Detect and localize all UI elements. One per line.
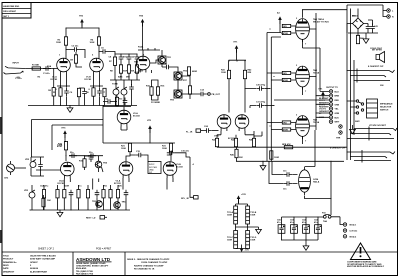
svg-text:TAD-A: TAD-A <box>313 181 320 184</box>
capacitor C15 <box>136 153 144 158</box>
resistor R22 <box>42 198 45 206</box>
svg-text:7: 7 <box>305 44 307 46</box>
wire ground ext <box>103 105 137 107</box>
svg-text:100K: 100K <box>162 148 167 150</box>
ground TX <box>256 227 262 234</box>
svg-text:ECC83: ECC83 <box>85 79 93 81</box>
HT1 arrow right <box>319 89 325 100</box>
power valve V10 <box>296 116 320 139</box>
valve V2-A ECC83 <box>117 110 140 126</box>
wire <box>347 5 387 17</box>
svg-text:VR2: VR2 <box>25 159 30 161</box>
resistor R6B <box>103 88 106 106</box>
svg-text:FX SEND: FX SEND <box>151 102 161 104</box>
valve V1-A ECC83 <box>51 58 71 81</box>
wire V2-A legs <box>121 127 127 131</box>
wire coupling <box>66 50 85 59</box>
wire <box>229 79 256 113</box>
connector pin 6 <box>329 111 339 115</box>
resistor R19 <box>83 156 86 170</box>
resistor R6A <box>77 88 80 106</box>
svg-text:COAX ONLY: COAX ONLY <box>370 47 383 50</box>
wire selector feeds <box>347 101 356 113</box>
svg-text:TX1-A: TX1-A <box>227 211 234 214</box>
jack J8 8ohm <box>357 66 395 87</box>
ground caps <box>303 240 309 250</box>
svg-text:BLU/WHT: BLU/WHT <box>319 98 329 100</box>
svg-text:100K: 100K <box>221 72 226 74</box>
svg-text:470p: 470p <box>123 55 128 58</box>
svg-text:10K: 10K <box>47 200 51 202</box>
svg-text:MUST BE REPLACED ACCORDINGLY: MUST BE REPLACED ACCORDINGLY <box>347 265 385 268</box>
resistor R48 nfb <box>284 146 292 149</box>
input jack J1 <box>4 63 26 80</box>
resistor R14 <box>150 87 153 95</box>
resistor R10 <box>135 65 138 73</box>
svg-text:+15V: +15V <box>241 194 247 196</box>
svg-text:YEL: YEL <box>335 109 340 111</box>
svg-text:PGB = APR07: PGB = APR07 <box>96 248 112 251</box>
transformer TX1-D <box>246 231 257 249</box>
wire top rail <box>138 48 160 50</box>
pot VR5 middle <box>121 80 127 106</box>
svg-text:TONE: TONE <box>112 84 118 86</box>
svg-text:CH2: CH2 <box>4 178 9 180</box>
resistor R2 <box>48 69 55 106</box>
svg-text:HT1: HT1 <box>234 42 239 44</box>
switch SW1 <box>148 162 161 175</box>
svg-text:10n: 10n <box>283 189 287 191</box>
svg-text:8 OHM EXT O/P: 8 OHM EXT O/P <box>368 66 384 68</box>
HT2 rail arrow <box>79 16 84 27</box>
svg-text:3: 3 <box>296 115 298 117</box>
wire mid row <box>69 155 103 157</box>
svg-text:R14A: R14A <box>138 46 144 49</box>
wire cathode bus <box>217 147 347 150</box>
svg-text:RED/WHT: RED/WHT <box>319 107 329 109</box>
+15V arrow <box>237 194 247 203</box>
wire top <box>115 53 137 55</box>
capacitor C42 <box>283 171 292 177</box>
wire <box>99 52 115 55</box>
svg-text:1K5: 1K5 <box>103 186 108 188</box>
svg-text:1M: 1M <box>70 60 73 62</box>
svg-text:R5: R5 <box>53 92 57 94</box>
svg-text:R1A: R1A <box>47 65 52 68</box>
resistor R16 <box>187 67 197 75</box>
capacitor C14 <box>198 92 206 97</box>
wire cap bottoms <box>282 233 319 240</box>
svg-text:100R: 100R <box>250 240 255 242</box>
svg-text:TEL (0)845 17326: TEL (0)845 17326 <box>76 270 94 273</box>
resistor R60 <box>356 35 359 43</box>
HT arrow A3 <box>277 12 282 33</box>
wire <box>90 75 103 106</box>
svg-text:1M: 1M <box>48 90 51 92</box>
resistor R28 <box>102 190 105 198</box>
valve V7-A ECC83 <box>214 115 231 138</box>
svg-text:25K: 25K <box>131 71 135 73</box>
node <box>244 88 245 89</box>
capacitor C12B <box>123 98 128 106</box>
transistor Q2 <box>174 71 188 81</box>
svg-text:1: 1 <box>59 55 61 57</box>
svg-text:PRODUCT: PRODUCT <box>3 259 14 261</box>
svg-text:250K: 250K <box>123 71 128 73</box>
connector pin 2 <box>329 94 339 98</box>
bridge rectifier BR1 <box>352 16 364 30</box>
svg-text:TAD: TAD <box>313 69 318 72</box>
resistor R21 <box>121 143 132 151</box>
svg-text:R43: R43 <box>212 139 217 142</box>
svg-text:RED: RED <box>335 100 340 102</box>
wire PI cathodes <box>217 131 254 138</box>
HT4 arrow <box>139 15 144 51</box>
capacitor C12 <box>105 99 113 104</box>
transistor TR6 <box>114 202 121 209</box>
svg-text:4 OHM EXT O/P: 4 OHM EXT O/P <box>330 147 346 150</box>
svg-text:470R: 470R <box>283 32 288 35</box>
svg-text:L: L <box>392 11 394 13</box>
svg-text:GRN/WHT: GRN/WHT <box>319 111 330 113</box>
capacitor C40 <box>366 24 371 32</box>
nfb wire <box>254 132 262 139</box>
svg-text:SW2: SW2 <box>355 121 360 123</box>
grid resistor R52 <box>267 121 297 125</box>
svg-text:REV7_LD: REV7_LD <box>86 218 96 220</box>
svg-text:GZ34: GZ34 <box>313 178 319 181</box>
svg-text:BRN: BRN <box>335 96 340 98</box>
svg-text:GRN: GRN <box>335 113 340 115</box>
svg-text:VR3: VR3 <box>24 190 29 192</box>
ground <box>67 106 73 113</box>
wire buffer 2 <box>152 76 199 100</box>
svg-text:TRE: TRE <box>134 62 139 64</box>
sheet line <box>2 251 398 253</box>
resistor R3 <box>64 37 67 45</box>
svg-text:C1 47n: C1 47n <box>43 72 51 75</box>
wire q1 base <box>150 60 159 63</box>
wire <box>236 199 248 206</box>
svg-text:TR1: TR1 <box>167 57 172 59</box>
wire plate connections <box>303 10 348 144</box>
svg-text:BRN/WHT: BRN/WHT <box>319 102 330 104</box>
left edge mark 2 <box>0 230 2 243</box>
svg-text:ALAN BERTRAM: ALAN BERTRAM <box>30 270 47 273</box>
wire legs <box>64 178 173 190</box>
wire grid buses <box>267 33 281 162</box>
capacitor C30 <box>256 84 266 91</box>
svg-text:C13: C13 <box>163 64 168 66</box>
svg-text:ASHDOWN LTD: ASHDOWN LTD <box>76 257 111 262</box>
connector pin 7 <box>329 116 339 120</box>
svg-text:SPL_JK: SPL_JK <box>181 198 189 200</box>
wire <box>265 105 274 107</box>
resistor R42 <box>243 69 252 79</box>
capacitor C13 <box>164 65 172 70</box>
svg-text:100K: 100K <box>121 148 126 150</box>
svg-text:REVD: REVD <box>3 265 9 267</box>
svg-text:VALVE RHYTHM & BLUES: VALVE RHYTHM & BLUES <box>30 254 56 257</box>
svg-text:R13: R13 <box>119 99 124 101</box>
svg-text:SW1/2: SW1/2 <box>149 164 154 166</box>
capacitor C7 <box>97 88 102 96</box>
svg-text:R17: R17 <box>183 80 188 82</box>
valve V3-A ECC83 <box>114 162 133 185</box>
resistor R18 <box>57 142 68 162</box>
node dots pass <box>29 9 354 240</box>
svg-text:SWITCH: SWITCH <box>380 110 389 112</box>
capacitor C9 <box>127 54 132 62</box>
svg-text:DRAWN BY: DRAWN BY <box>3 270 15 273</box>
resistor R46 tail <box>235 149 238 157</box>
svg-text:R1 68K: R1 68K <box>32 64 40 66</box>
node FX_OUT <box>208 93 221 96</box>
svg-text:R7: R7 <box>109 61 113 63</box>
capacitor C52 <box>302 220 309 234</box>
node dots <box>293 216 318 217</box>
svg-text:WE 407 770 R21: WE 407 770 R21 <box>313 21 330 24</box>
svg-text:C14: C14 <box>200 89 205 92</box>
connector pin 3 <box>329 98 339 102</box>
fuse F03 <box>322 212 332 222</box>
wire <box>57 75 70 106</box>
svg-text:HTR: HTR <box>336 138 341 140</box>
transformer TX1-C <box>227 231 238 249</box>
svg-text:R45: R45 <box>249 139 254 142</box>
wire OT leads <box>303 48 330 113</box>
resistor R5 <box>59 88 62 96</box>
svg-text:BLU: BLU <box>335 91 340 93</box>
resistor R1 <box>32 67 40 70</box>
capacitor C8 <box>119 54 124 62</box>
svg-text:2: 2 <box>30 265 32 267</box>
capacitor C3 <box>72 47 80 52</box>
transistor TR5 <box>96 201 103 208</box>
wire <box>347 9 368 34</box>
valve V2-B ECC83 <box>134 56 150 74</box>
svg-text:D1-D4: D1-D4 <box>352 15 359 18</box>
svg-text:470R: 470R <box>283 79 288 82</box>
value labels pass <box>15 55 143 101</box>
capacitor C18 <box>69 153 77 158</box>
resistor R7 <box>113 57 116 65</box>
svg-text:DRG GP0807: DRG GP0807 <box>3 11 17 13</box>
svg-text:100K: 100K <box>90 42 95 44</box>
resistor R24 <box>56 190 59 198</box>
title box top-left <box>2 3 31 19</box>
capacitor C20 <box>69 190 74 198</box>
reverb connector REV7_LD <box>86 216 107 220</box>
resistor R6 <box>92 88 95 96</box>
wire buffer 3 <box>206 93 208 95</box>
wire input <box>26 68 58 70</box>
ground <box>350 125 356 134</box>
svg-text:C24: C24 <box>204 125 209 128</box>
svg-text:HT3: HT3 <box>147 120 152 122</box>
svg-text:3: 3 <box>296 65 298 67</box>
capacitor C23 <box>89 154 94 162</box>
svg-text:470R: 470R <box>283 129 288 132</box>
capacitor C53 <box>314 220 321 234</box>
resistor R26 <box>77 190 80 198</box>
valve V11 GZ34 <box>299 167 320 195</box>
capacitor C1 <box>43 66 51 71</box>
svg-text:6.3V AC: 6.3V AC <box>350 230 358 233</box>
svg-text:C15: C15 <box>136 151 141 153</box>
svg-text:6: 6 <box>92 55 94 57</box>
wire <box>347 129 369 139</box>
svg-text:R16: R16 <box>161 86 166 88</box>
svg-text:IMPEDANCE: IMPEDANCE <box>380 103 393 106</box>
power valve V8 <box>296 18 330 42</box>
svg-text:MOD-1: MOD-1 <box>350 225 358 227</box>
svg-text:100K: 100K <box>56 42 61 44</box>
svg-text:TR4: TR4 <box>103 162 108 165</box>
resistor R23 <box>42 190 45 198</box>
capacitor C51 <box>290 220 297 234</box>
resistor R27 <box>86 190 89 198</box>
wire anode V2-A <box>103 106 131 111</box>
speaker LS1 <box>372 50 385 63</box>
ground psu <box>363 33 369 43</box>
wire rectifier bottom <box>305 161 332 215</box>
svg-text:7: 7 <box>305 91 307 93</box>
wire tr4 <box>91 154 103 172</box>
svg-text:INPUT: INPUT <box>13 63 20 65</box>
svg-text:T4A: T4A <box>323 220 327 223</box>
wire <box>236 227 248 249</box>
transformer TX1-B <box>246 206 257 224</box>
capacitor C6 <box>64 88 69 96</box>
svg-text:MID: MID <box>126 77 130 79</box>
svg-text:100R: 100R <box>274 157 279 159</box>
valve V3-B ECC83 <box>163 162 183 178</box>
warning triangle <box>347 243 385 268</box>
svg-text:BAS: BAS <box>118 76 123 79</box>
wire <box>115 54 137 65</box>
svg-text:100R: 100R <box>250 215 255 217</box>
svg-text:10n: 10n <box>283 171 287 173</box>
pot VR4 bass <box>113 80 119 106</box>
resistor R31 <box>162 143 173 151</box>
capacitor C5 <box>100 49 108 54</box>
svg-text:100R: 100R <box>227 240 232 242</box>
wire <box>66 45 99 58</box>
screen resistor R53 <box>281 31 297 35</box>
power valve V9 <box>296 66 320 89</box>
svg-text:F03: F03 <box>322 212 326 214</box>
svg-text:C6A 47u: C6A 47u <box>40 185 49 188</box>
svg-text:-15V: -15V <box>245 250 250 252</box>
svg-text:TAD 7581A: TAD 7581A <box>313 18 324 21</box>
wire pin feeds <box>274 100 329 117</box>
wire mid <box>110 65 140 80</box>
svg-text:C41: C41 <box>374 25 379 28</box>
grid resistor R50 <box>282 24 296 28</box>
svg-text:MOD-2: MOD-2 <box>350 236 358 238</box>
svg-text:ECC83: ECC83 <box>133 116 141 118</box>
svg-text:C8: C8 <box>109 56 113 58</box>
connector pin 1 <box>329 90 339 94</box>
svg-text:R9 CHANGED TO 1K: R9 CHANGED TO 1K <box>134 268 155 271</box>
HT1 arrow <box>234 42 239 53</box>
node <box>53 68 54 69</box>
svg-text:J08: J08 <box>380 85 384 87</box>
svg-text:SW: SW <box>149 172 152 174</box>
svg-text:HT4: HT4 <box>139 15 144 18</box>
wire PI rail <box>229 49 246 71</box>
svg-text:CHELMSFORD, ESSEX CM3 4PY: CHELMSFORD, ESSEX CM3 4PY <box>76 265 109 268</box>
wire <box>292 175 297 184</box>
svg-text:N: N <box>392 17 394 19</box>
capacitor C17 <box>38 162 43 170</box>
ground <box>260 161 266 170</box>
svg-text:A3: A3 <box>277 12 281 15</box>
connector pin 5 <box>329 107 339 111</box>
wire pot <box>31 157 61 176</box>
left edge mark <box>0 117 2 134</box>
svg-text:C6: C6 <box>70 92 74 94</box>
impedance selector SW2 <box>356 99 393 118</box>
mains pin N <box>387 15 394 19</box>
resistor R17 <box>188 86 191 94</box>
capacitor C22 <box>124 190 129 198</box>
wire <box>265 88 270 90</box>
wire <box>126 152 171 161</box>
capacitor C11 <box>129 80 134 106</box>
HT5 arrow <box>62 128 67 142</box>
svg-text:R46: R46 <box>230 154 235 157</box>
resistor R43 <box>215 138 218 146</box>
svg-text:V2-A: V2-A <box>133 112 138 115</box>
capacitor C19 <box>88 153 96 158</box>
svg-text:HT SPK SOCKET: HT SPK SOCKET <box>369 125 387 127</box>
screen resistor R55 <box>271 128 296 132</box>
FX jack label <box>186 129 204 133</box>
svg-text:ECC83: ECC83 <box>51 79 59 81</box>
capacitor C16 <box>167 151 175 156</box>
resistor R47 <box>270 151 280 159</box>
svg-text:HOME FARM, QUEBEC ROAD: HOME FARM, QUEBEC ROAD <box>76 262 106 265</box>
connector pin 8 <box>329 120 340 124</box>
resistor R3A grid leak <box>70 52 82 67</box>
svg-text:C16 22n: C16 22n <box>181 151 190 153</box>
jack J10 4ohm <box>330 147 395 163</box>
pot VR2 gain <box>25 159 36 168</box>
resistor R8 <box>119 65 122 73</box>
panel pin MOD-2 <box>343 235 357 239</box>
wire buffer <box>143 50 178 73</box>
-15V label <box>240 245 250 253</box>
svg-text:SHEET 1 OF 2: SHEET 1 OF 2 <box>38 248 55 251</box>
wire to gnd bus <box>44 185 127 210</box>
svg-text:NFB 47K: NFB 47K <box>282 143 291 146</box>
svg-text:C0226 CHANGED TO 47NF: C0226 CHANGED TO 47NF <box>141 261 168 264</box>
capacitor C24 <box>204 125 212 133</box>
svg-text:HT1: HT1 <box>319 89 324 91</box>
wire <box>103 95 117 107</box>
svg-text:FL_JK: FL_JK <box>186 131 193 133</box>
svg-text:SHT 1: SHT 1 <box>3 16 10 18</box>
transistor Q3 <box>170 90 182 102</box>
valve V4-A ECC83 <box>58 162 75 185</box>
valve V7-B ECC83 <box>228 115 249 140</box>
svg-text:100R: 100R <box>227 215 232 217</box>
svg-text:06/06/06: 06/06/06 <box>30 268 39 270</box>
HT3 arrow <box>147 120 152 133</box>
resistor R29 <box>109 190 112 198</box>
